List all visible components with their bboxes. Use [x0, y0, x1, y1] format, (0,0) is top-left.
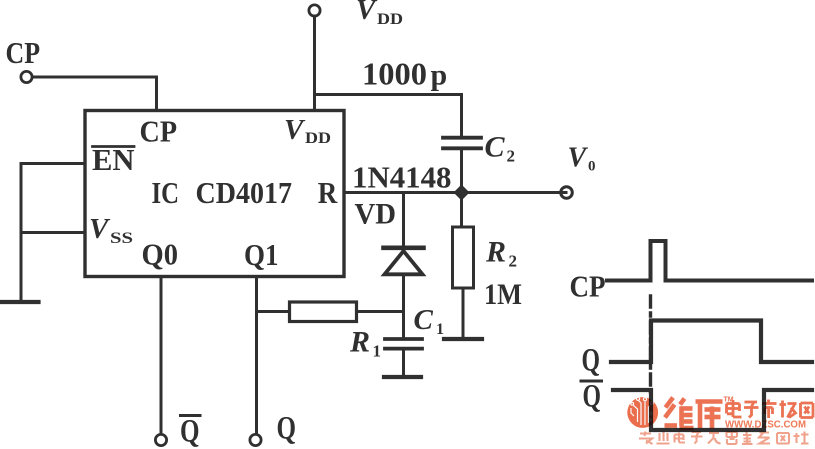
svg-text:V: V: [284, 114, 306, 146]
wire Q1 branch to R1: [257, 310, 290, 313]
wire CP to IC pin CP: [33, 77, 157, 109]
watermark dzsc logo group: [627, 397, 813, 445]
capacitor C1 plates: [385, 339, 422, 349]
svg-text:2: 2: [509, 252, 518, 271]
svg-text:C: C: [485, 131, 506, 164]
terminal VDD: [309, 5, 320, 16]
svg-text:Q: Q: [582, 343, 601, 379]
wire R wire down to diode VD: [402, 194, 405, 246]
label Q-bar waveform: [581, 379, 602, 415]
label C2: [485, 131, 516, 166]
wire Q-bar waveform trace: [613, 390, 812, 430]
svg-text:Q: Q: [583, 379, 602, 415]
svg-text:p: p: [431, 59, 448, 92]
svg-text:1: 1: [436, 321, 444, 338]
label VDD terminal: [356, 0, 403, 28]
svg-text:CP: CP: [6, 35, 41, 70]
watermark slogan row: [639, 432, 809, 445]
resistor R1 body: [290, 302, 357, 322]
wire VDD down to IC pin VDD: [313, 16, 316, 109]
svg-text:C: C: [414, 304, 434, 336]
wire Q1 to terminal: [255, 277, 258, 434]
svg-text:Q1: Q1: [244, 237, 279, 272]
wire C1 to ground: [402, 349, 405, 375]
ground left: [1, 300, 39, 304]
terminal CP input: [21, 71, 32, 82]
svg-text:R: R: [349, 326, 370, 359]
ground C1: [384, 375, 421, 379]
terminal Q-bar: [155, 434, 166, 445]
pin label EN (active low): [92, 142, 135, 177]
wire node A to R2: [460, 199, 463, 227]
node A junction dot: [454, 185, 470, 201]
terminal Q: [250, 434, 261, 445]
svg-text:CP: CP: [570, 269, 606, 304]
svg-text:R: R: [485, 236, 506, 269]
svg-text:V: V: [89, 213, 111, 245]
svg-text:1000: 1000: [362, 56, 427, 92]
logo circle: [627, 397, 658, 428]
wire VSS to ground rail: [21, 231, 85, 234]
label C1: [414, 304, 445, 338]
svg-text:CP: CP: [140, 114, 178, 149]
svg-text:2: 2: [507, 147, 516, 166]
svg-text:VD: VD: [355, 198, 397, 231]
svg-text:IC: IC: [152, 175, 180, 210]
wire VDD branch to C2: [315, 95, 462, 138]
svg-text:SS: SS: [110, 230, 133, 247]
IC U1 CD4017 body: [85, 111, 344, 277]
ground R2: [444, 337, 482, 341]
label R2: [485, 236, 517, 271]
svg-text:Q0: Q0: [142, 237, 179, 272]
svg-text:1M: 1M: [484, 278, 522, 311]
svg-text:V: V: [568, 143, 589, 174]
node timing reference dash-dot line: [649, 296, 652, 392]
terminal V0 output: [561, 187, 573, 199]
svg-text:Q: Q: [277, 411, 297, 447]
svg-text:DD: DD: [305, 130, 331, 147]
svg-text:V: V: [356, 0, 378, 26]
wire IC pin R to terminal V0: [344, 191, 566, 194]
svg-text:1N4148: 1N4148: [352, 160, 452, 195]
wire C2 to node A: [460, 149, 463, 193]
wire EN to ground rail: [21, 164, 85, 301]
logo circuit pattern: [631, 397, 653, 425]
diode VD triangle: [385, 251, 423, 274]
svg-text:1: 1: [373, 342, 382, 361]
svg-text:CD4017: CD4017: [196, 175, 293, 210]
diode VD cathode bar: [384, 246, 424, 251]
svg-text:Q: Q: [180, 414, 200, 449]
pin label VSS: [89, 213, 133, 247]
logo char wei: [665, 398, 694, 429]
svg-text:R: R: [318, 175, 338, 210]
wire R2 to ground: [462, 288, 465, 337]
wire Q0 to terminal: [160, 277, 163, 434]
wire Q waveform trace: [611, 321, 812, 363]
label Q-bar terminal: [180, 414, 200, 449]
svg-text:WWW.DZSC.COM: WWW.DZSC.COM: [725, 419, 806, 431]
label IC CD4017: [152, 175, 293, 210]
logo text dian zi shi chang wang: [727, 400, 814, 419]
wire diode to C1: [402, 274, 405, 338]
logo char ku: [696, 402, 723, 429]
wire CP waveform trace: [607, 241, 812, 281]
pin label VDD: [284, 114, 331, 147]
wire R1 to diode/C1 node: [357, 310, 404, 313]
label V0: [568, 143, 596, 175]
resistor R2 body: [453, 227, 474, 288]
svg-text:0: 0: [588, 159, 596, 175]
label R1: [349, 326, 381, 361]
capacitor C2 plates: [443, 138, 481, 149]
svg-text:DD: DD: [377, 11, 403, 28]
